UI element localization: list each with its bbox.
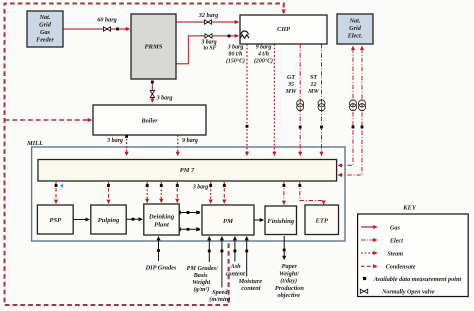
svg-text:3 barg: 3 barg (227, 45, 244, 51)
svg-text:Grid: Grid (349, 25, 362, 32)
svg-text:(g/m²): (g/m²) (193, 286, 209, 293)
svg-text:Steam: Steam (387, 250, 403, 257)
svg-text:Elect: Elect (389, 237, 403, 244)
svg-text:Boiler: Boiler (140, 118, 158, 125)
svg-text:CHP: CHP (277, 26, 290, 33)
svg-text:Condensate: Condensate (386, 264, 416, 271)
svg-text:9 barg: 9 barg (182, 138, 198, 144)
svg-text:PM: PM (223, 218, 234, 225)
svg-text:KEY: KEY (402, 205, 417, 212)
svg-text:PRMS: PRMS (145, 44, 163, 51)
svg-text:9 barg: 9 barg (256, 45, 272, 51)
svg-text:Gas: Gas (390, 224, 401, 231)
svg-text:Available data measurement poi: Available data measurement point (373, 276, 462, 283)
svg-text:PM 7: PM 7 (180, 167, 195, 174)
svg-text:Elect.: Elect. (347, 33, 363, 40)
svg-text:Nat.: Nat. (39, 14, 51, 21)
svg-text:ST: ST (310, 75, 317, 81)
svg-text:to SF: to SF (203, 46, 216, 52)
svg-text:3 barg: 3 barg (192, 184, 208, 190)
svg-text:Deinking: Deinking (148, 213, 175, 220)
svg-text:content: content (241, 285, 260, 292)
svg-text:Finishing: Finishing (267, 218, 294, 225)
svg-text:80 t/h: 80 t/h (229, 52, 243, 58)
svg-text:Production: Production (275, 285, 305, 292)
svg-text:Weight/: Weight/ (279, 271, 300, 278)
svg-text:ETP: ETP (314, 218, 328, 225)
svg-text:content: content (226, 270, 245, 277)
svg-text:(t/day): (t/day) (280, 278, 297, 285)
svg-text:3 barg: 3 barg (106, 138, 123, 144)
svg-text:35: 35 (287, 82, 294, 88)
svg-text:(200°C): (200°C) (254, 58, 273, 65)
svg-text:60 barg: 60 barg (97, 16, 116, 23)
svg-text:Moisture: Moisture (238, 278, 263, 285)
svg-text:GT: GT (287, 75, 295, 81)
svg-text:4 t/h: 4 t/h (257, 52, 269, 58)
svg-text:PM Grades/: PM Grades/ (187, 265, 220, 272)
svg-text:MILL: MILL (26, 140, 43, 147)
svg-text:Normally Open valve: Normally Open valve (381, 290, 435, 296)
svg-text:Paper: Paper (282, 263, 298, 270)
svg-text:Basis: Basis (193, 272, 209, 279)
svg-text:Weight: Weight (192, 279, 210, 286)
svg-text:Grid: Grid (39, 22, 52, 29)
svg-text:Ash: Ash (230, 263, 242, 270)
svg-text:Feeder: Feeder (36, 37, 54, 44)
svg-text:Plant: Plant (154, 221, 169, 228)
svg-text:Gas: Gas (40, 29, 51, 36)
svg-text:12: 12 (311, 82, 317, 88)
svg-text:MW: MW (307, 89, 319, 95)
svg-text:objective: objective (277, 292, 300, 299)
svg-text:PSP: PSP (49, 217, 62, 224)
svg-text:Pulping: Pulping (98, 217, 120, 224)
svg-text:Nat.: Nat. (349, 18, 361, 25)
svg-text:3 barg: 3 barg (156, 96, 173, 102)
svg-text:(m/min): (m/min) (209, 296, 230, 303)
svg-text:DIP Grades: DIP Grades (145, 265, 177, 272)
svg-text:32 barg: 32 barg (198, 12, 218, 19)
svg-text:(150°C): (150°C) (226, 58, 245, 65)
svg-text:Speed: Speed (212, 289, 228, 296)
svg-text:MW: MW (285, 89, 297, 95)
